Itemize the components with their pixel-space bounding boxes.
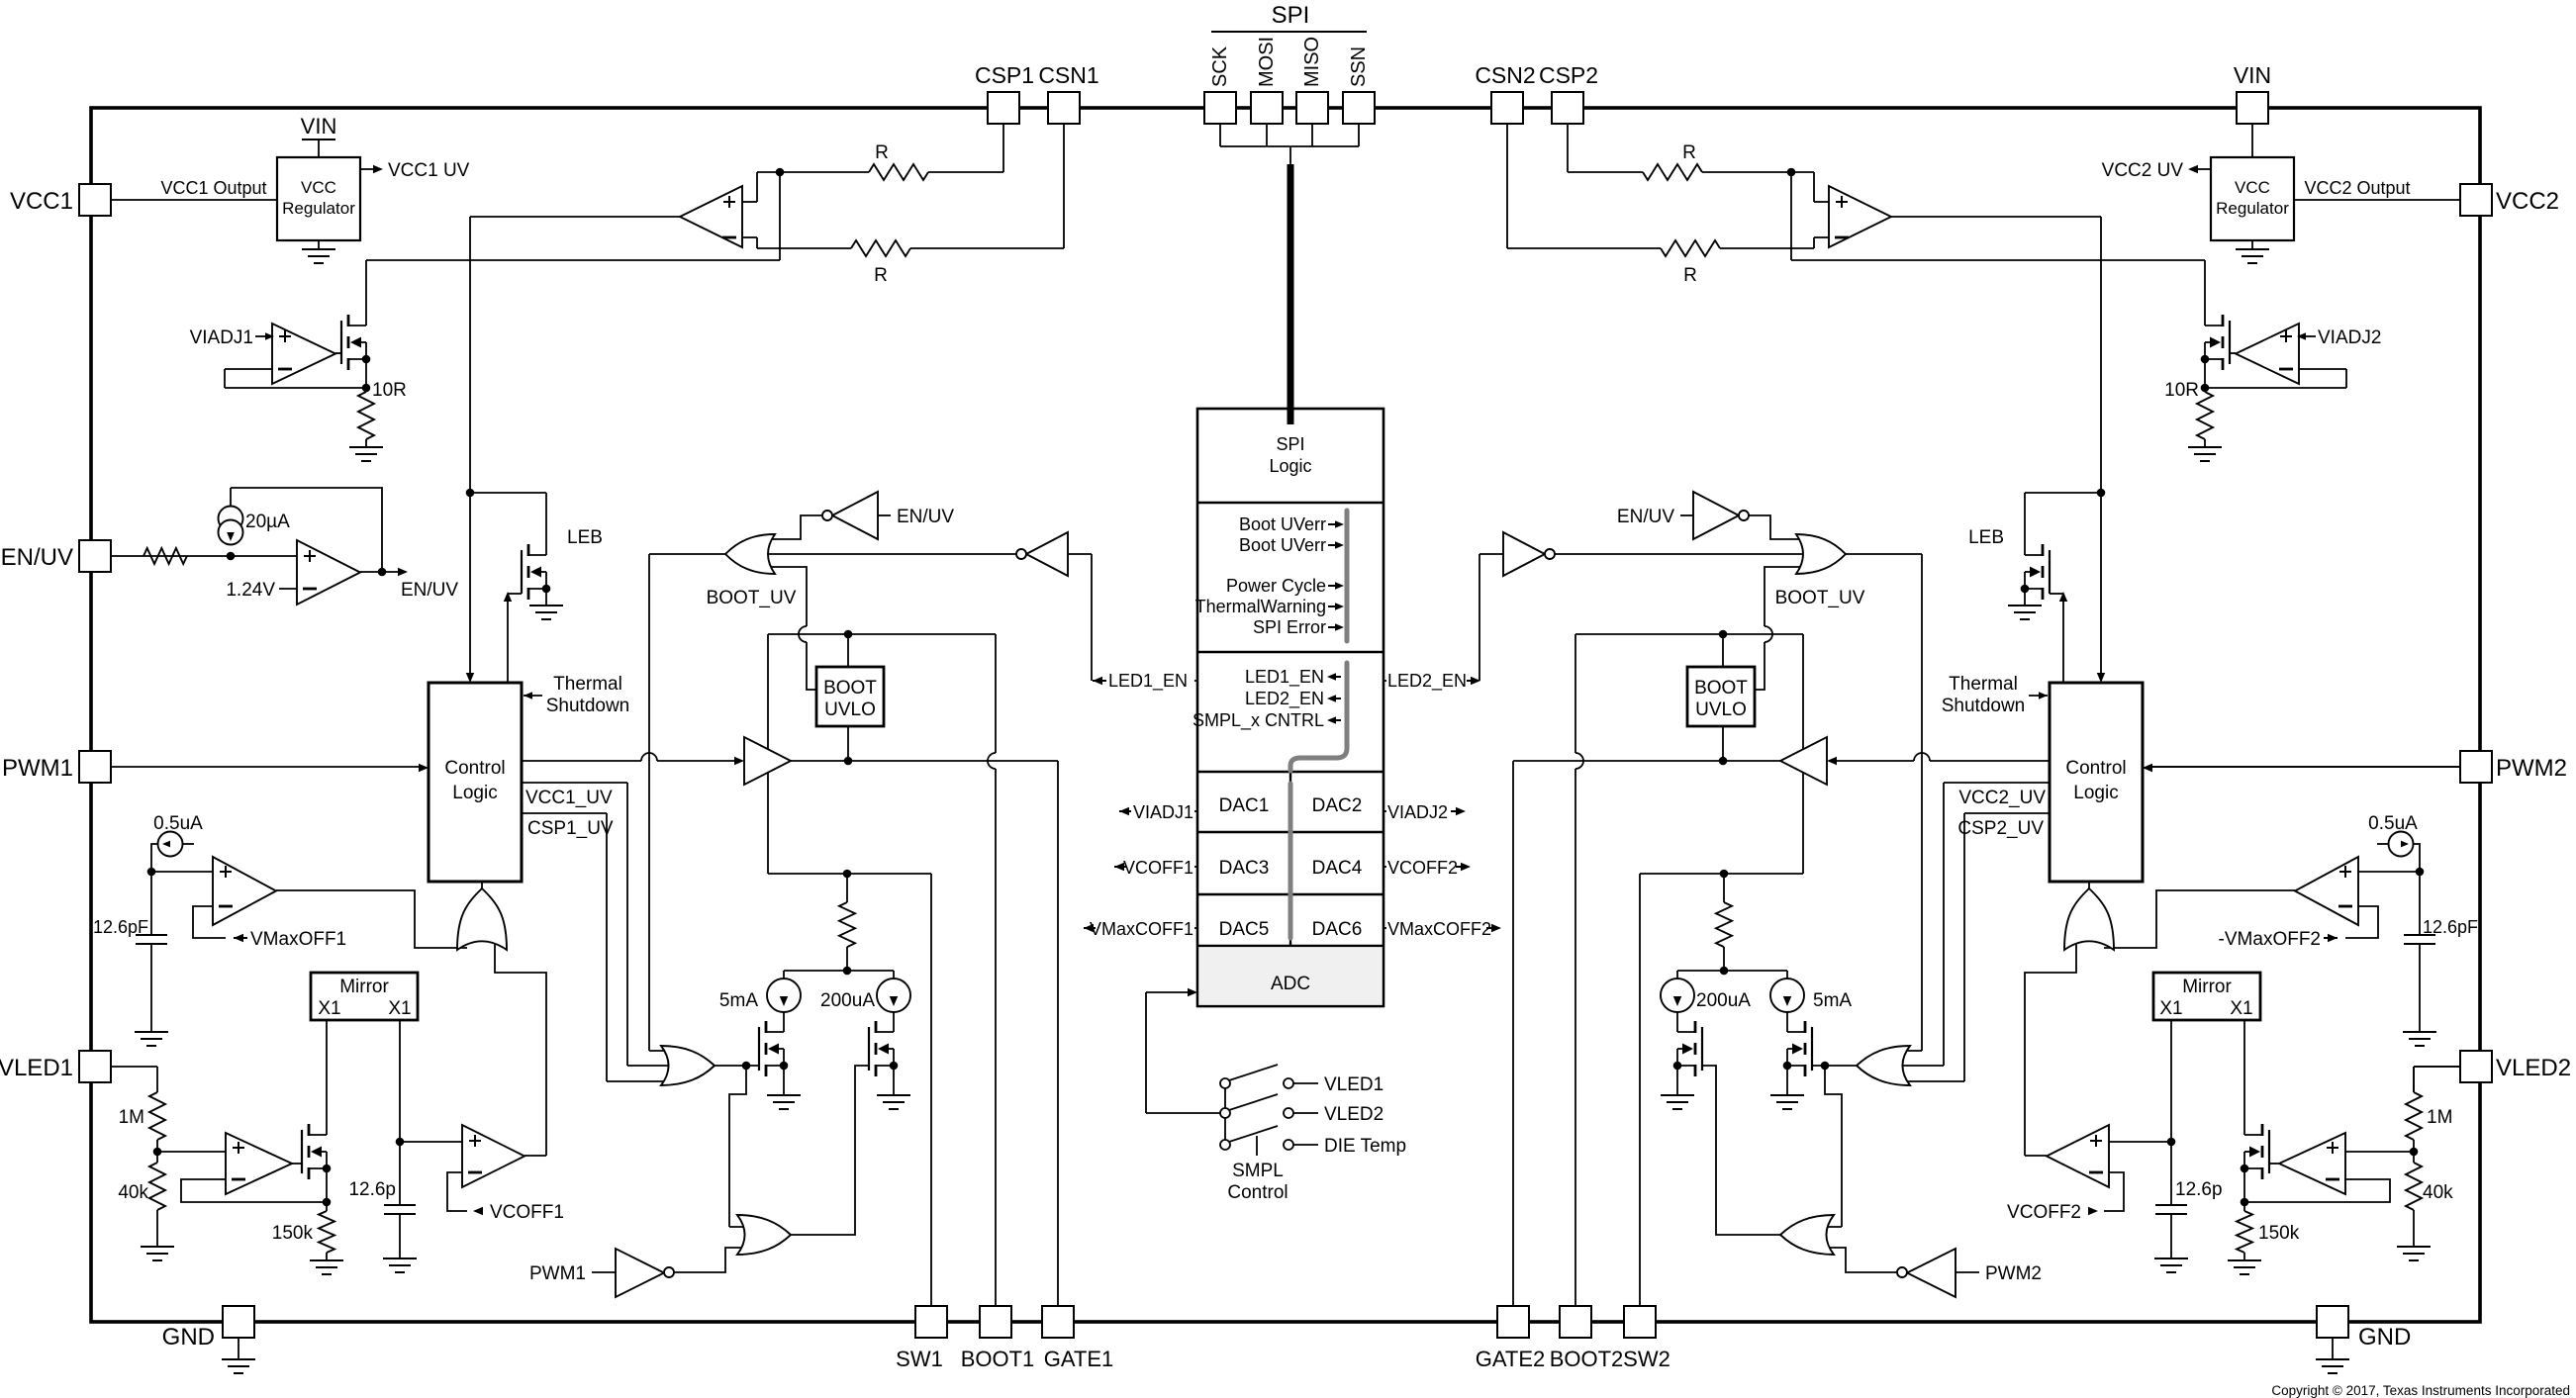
svg-text:BOOT1: BOOT1 bbox=[961, 1347, 1035, 1371]
svg-text:LEB: LEB bbox=[567, 527, 603, 548]
svg-text:DIE Temp: DIE Temp bbox=[1324, 1136, 1406, 1157]
svg-text:VMaxOFF1: VMaxOFF1 bbox=[250, 929, 346, 950]
svg-text:10R: 10R bbox=[2164, 380, 2199, 401]
svg-text:GND: GND bbox=[162, 1324, 215, 1351]
svg-text:R: R bbox=[874, 265, 888, 286]
svg-text:X1: X1 bbox=[2230, 998, 2252, 1019]
svg-text:12.6pF: 12.6pF bbox=[93, 917, 148, 937]
svg-text:VCC1 Output: VCC1 Output bbox=[160, 178, 266, 198]
svg-text:ThermalWarning: ThermalWarning bbox=[1195, 597, 1326, 616]
svg-text:Copyright © 2017, Texas Instru: Copyright © 2017, Texas Instruments Inco… bbox=[2271, 1383, 2570, 1398]
svg-text:Boot UVerr: Boot UVerr bbox=[1239, 514, 1326, 534]
svg-text:VCOFF2: VCOFF2 bbox=[1387, 858, 1458, 878]
svg-text:R: R bbox=[1683, 265, 1697, 286]
svg-text:SW1: SW1 bbox=[896, 1347, 943, 1371]
svg-text:12.6p: 12.6p bbox=[348, 1179, 396, 1200]
svg-text:BOOT: BOOT bbox=[1694, 678, 1748, 699]
svg-text:VCC2 Output: VCC2 Output bbox=[2304, 178, 2410, 198]
svg-text:DAC2: DAC2 bbox=[1312, 795, 1363, 816]
svg-text:CSP2: CSP2 bbox=[1539, 62, 1598, 88]
svg-text:10R: 10R bbox=[372, 380, 407, 401]
svg-text:BOOT: BOOT bbox=[823, 678, 877, 699]
svg-text:GND: GND bbox=[2358, 1324, 2411, 1351]
svg-text:0.5uA: 0.5uA bbox=[153, 813, 203, 834]
svg-text:Logic: Logic bbox=[1269, 456, 1311, 476]
svg-text:EN/UV: EN/UV bbox=[1617, 507, 1674, 527]
svg-text:MOSI: MOSI bbox=[1256, 37, 1278, 87]
svg-text:Logic: Logic bbox=[452, 783, 497, 803]
svg-text:EN/UV: EN/UV bbox=[1, 544, 73, 571]
svg-text:PWM1: PWM1 bbox=[2, 755, 73, 782]
svg-text:VCC: VCC bbox=[301, 178, 336, 197]
svg-text:VCC2: VCC2 bbox=[2496, 188, 2559, 215]
svg-text:CSP2_UV: CSP2_UV bbox=[1957, 818, 2044, 839]
svg-text:VCC1 UV: VCC1 UV bbox=[388, 160, 470, 181]
svg-text:1M: 1M bbox=[2427, 1107, 2452, 1128]
svg-text:PWM1: PWM1 bbox=[529, 1263, 586, 1284]
svg-text:VCC2_UV: VCC2_UV bbox=[1958, 788, 2046, 808]
svg-text:Control: Control bbox=[2065, 758, 2126, 779]
svg-text:VLED2: VLED2 bbox=[1324, 1104, 1383, 1125]
svg-text:VLED1: VLED1 bbox=[1324, 1074, 1383, 1095]
svg-text:VIN: VIN bbox=[2234, 62, 2271, 88]
svg-text:200uA: 200uA bbox=[820, 990, 875, 1011]
svg-text:SPI: SPI bbox=[1272, 2, 1310, 29]
svg-text:DAC5: DAC5 bbox=[1219, 919, 1270, 940]
svg-text:0.5uA: 0.5uA bbox=[2368, 813, 2418, 834]
svg-text:Control: Control bbox=[444, 758, 505, 779]
svg-text:Shutdown: Shutdown bbox=[546, 696, 630, 716]
svg-text:GATE1: GATE1 bbox=[1044, 1347, 1114, 1371]
svg-text:VIADJ2: VIADJ2 bbox=[1387, 802, 1448, 822]
svg-text:LED2_EN: LED2_EN bbox=[1387, 671, 1467, 692]
svg-text:DAC3: DAC3 bbox=[1219, 858, 1270, 879]
svg-text:Mirror: Mirror bbox=[339, 977, 389, 997]
svg-text:12.6pF: 12.6pF bbox=[2423, 917, 2478, 937]
svg-text:BOOT_UV: BOOT_UV bbox=[707, 588, 797, 608]
svg-text:X1: X1 bbox=[2159, 998, 2182, 1019]
svg-text:CSN2: CSN2 bbox=[1475, 62, 1535, 88]
svg-text:40k: 40k bbox=[2423, 1182, 2453, 1203]
svg-text:UVLO: UVLO bbox=[824, 699, 876, 720]
svg-text:Control: Control bbox=[1227, 1182, 1288, 1203]
svg-text:VMaxCOFF1: VMaxCOFF1 bbox=[1090, 919, 1193, 939]
svg-text:R: R bbox=[1682, 142, 1696, 163]
svg-text:EN/UV: EN/UV bbox=[401, 580, 458, 601]
svg-text:5mA: 5mA bbox=[1813, 990, 1852, 1011]
svg-text:Shutdown: Shutdown bbox=[1942, 696, 2026, 716]
svg-text:EN/UV: EN/UV bbox=[897, 507, 954, 527]
svg-text:DAC1: DAC1 bbox=[1219, 795, 1270, 816]
svg-text:VIADJ1: VIADJ1 bbox=[190, 327, 253, 348]
svg-text:CSN1: CSN1 bbox=[1038, 62, 1098, 88]
svg-text:X1: X1 bbox=[318, 998, 340, 1019]
svg-text:LED1_EN: LED1_EN bbox=[1245, 667, 1324, 688]
svg-text:LEB: LEB bbox=[1968, 527, 2004, 548]
svg-text:VLED1: VLED1 bbox=[0, 1055, 73, 1081]
svg-text:CSP1: CSP1 bbox=[975, 62, 1034, 88]
svg-text:SMPL: SMPL bbox=[1232, 1161, 1284, 1181]
svg-text:VCC: VCC bbox=[2235, 178, 2270, 197]
svg-text:Mirror: Mirror bbox=[2182, 977, 2232, 997]
svg-text:150k: 150k bbox=[272, 1223, 314, 1244]
svg-text:DAC6: DAC6 bbox=[1312, 919, 1363, 940]
svg-text:SCK: SCK bbox=[1209, 46, 1231, 87]
svg-text:200uA: 200uA bbox=[1696, 990, 1751, 1011]
svg-text:5mA: 5mA bbox=[719, 990, 758, 1011]
svg-text:Regulator: Regulator bbox=[282, 199, 355, 218]
svg-text:VMaxCOFF2: VMaxCOFF2 bbox=[1387, 919, 1491, 939]
svg-text:VCC1: VCC1 bbox=[10, 188, 73, 215]
svg-text:LED1_EN: LED1_EN bbox=[1108, 671, 1188, 692]
svg-text:VIADJ1: VIADJ1 bbox=[1133, 802, 1193, 822]
svg-text:VCOFF1: VCOFF1 bbox=[1123, 858, 1193, 878]
svg-text:LED2_EN: LED2_EN bbox=[1245, 689, 1324, 709]
svg-text:40k: 40k bbox=[118, 1182, 148, 1203]
svg-text:X1: X1 bbox=[388, 998, 411, 1019]
svg-text:150k: 150k bbox=[2258, 1223, 2300, 1244]
svg-text:12.6p: 12.6p bbox=[2175, 1179, 2223, 1200]
svg-text:PWM2: PWM2 bbox=[1985, 1263, 2042, 1284]
svg-text:VCC1_UV: VCC1_UV bbox=[525, 788, 613, 808]
svg-text:SMPL_x CNTRL: SMPL_x CNTRL bbox=[1193, 710, 1324, 731]
svg-text:Regulator: Regulator bbox=[2216, 199, 2289, 218]
svg-text:GATE2: GATE2 bbox=[1476, 1347, 1546, 1371]
svg-text:Logic: Logic bbox=[2073, 783, 2118, 803]
svg-text:1.24V: 1.24V bbox=[226, 580, 275, 601]
svg-text:UVLO: UVLO bbox=[1695, 699, 1747, 720]
svg-text:DAC4: DAC4 bbox=[1312, 858, 1363, 879]
svg-text:-VMaxOFF2: -VMaxOFF2 bbox=[2219, 929, 2321, 950]
svg-text:SSN: SSN bbox=[1348, 47, 1370, 87]
svg-text:Boot UVerr: Boot UVerr bbox=[1239, 535, 1326, 555]
svg-text:1M: 1M bbox=[119, 1107, 144, 1128]
svg-text:SPI Error: SPI Error bbox=[1253, 617, 1326, 637]
svg-text:VIADJ2: VIADJ2 bbox=[2318, 327, 2381, 348]
svg-text:VCOFF1: VCOFF1 bbox=[490, 1202, 564, 1223]
svg-text:SW2: SW2 bbox=[1623, 1347, 1670, 1371]
svg-text:VCC2 UV: VCC2 UV bbox=[2102, 160, 2184, 181]
svg-text:ADC: ADC bbox=[1271, 974, 1310, 994]
svg-text:20µA: 20µA bbox=[245, 512, 290, 532]
svg-text:VLED2: VLED2 bbox=[2496, 1055, 2571, 1081]
svg-text:VIN: VIN bbox=[301, 114, 337, 139]
svg-text:Thermal: Thermal bbox=[553, 674, 622, 695]
svg-text:R: R bbox=[875, 142, 889, 163]
svg-text:PWM2: PWM2 bbox=[2496, 755, 2567, 782]
svg-text:MISO: MISO bbox=[1301, 37, 1323, 87]
svg-text:SPI: SPI bbox=[1276, 434, 1304, 454]
svg-text:BOOT_UV: BOOT_UV bbox=[1775, 588, 1865, 608]
svg-text:VCOFF2: VCOFF2 bbox=[2007, 1202, 2081, 1223]
svg-text:CSP1_UV: CSP1_UV bbox=[527, 818, 614, 839]
svg-text:BOOT2: BOOT2 bbox=[1550, 1347, 1624, 1371]
svg-text:Thermal: Thermal bbox=[1949, 674, 2018, 695]
svg-text:Power Cycle: Power Cycle bbox=[1226, 576, 1326, 596]
